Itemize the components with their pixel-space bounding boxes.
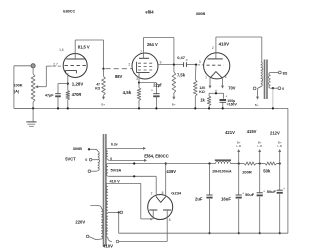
svg-text:1: 1 (205, 76, 207, 80)
net label B+ (R2) (101, 102, 105, 106)
svg-text:+: + (242, 192, 244, 196)
svg-text:220V: 220V (75, 219, 85, 224)
pin label 1,6 (59, 48, 64, 52)
OPT primary bottom wire (258, 87, 262, 89)
svg-text:470R: 470R (72, 92, 82, 97)
svg-text:1k: 1k (200, 98, 205, 103)
wire 410V bottom to GZ34 pin6 (108, 219, 168, 241)
net label B+ (OPT) (255, 103, 259, 107)
E80CC grid dashes (65, 64, 87, 66)
svg-text:421V: 421V (225, 130, 235, 135)
svg-text:4: 4 (150, 218, 152, 222)
B+ arrow below R2 (102, 95, 105, 100)
svg-text:GZ34: GZ34 (171, 190, 182, 195)
net label B+ L.R 2 (257, 141, 263, 149)
pin label 2 (EL84 grid) (128, 63, 130, 67)
junction cathode bar (215, 92, 217, 94)
svg-text:B+: B+ (172, 103, 176, 107)
node label 264 V (147, 42, 158, 47)
junction 2uF top (208, 162, 210, 164)
pin label 3 (136, 77, 138, 81)
R9 label 50k (263, 168, 271, 173)
T1 winding 5V/3A (106, 164, 108, 177)
wire EL84 pin9 to junction (158, 64, 183, 66)
capacitor C3 0,47u (183, 62, 196, 67)
resistor R3 470R (66, 91, 70, 100)
net label B+ L.R 1 (236, 141, 242, 149)
svg-text:300B: 300B (196, 11, 206, 16)
svg-text:2: 2 (128, 63, 130, 67)
junction R3-ground (67, 107, 69, 109)
junction secondary-ground (272, 107, 274, 109)
svg-text:µ: µ (186, 57, 188, 61)
capacitor C6 16uF (236, 164, 242, 234)
svg-text:410V: 410V (103, 244, 113, 249)
terminal center tap 0 (120, 211, 123, 214)
EL84 anode stem (143, 38, 145, 59)
E80CC cathode stem (67, 73, 69, 83)
terminal 410V bottom (116, 240, 119, 243)
C7 label 50uF (245, 192, 255, 197)
resistor R7 1k (207, 96, 211, 106)
C8 plus sign (283, 187, 285, 191)
tube label 300B (196, 11, 206, 16)
net label B+ (R4) (172, 103, 176, 107)
junction C7-ground (259, 232, 261, 234)
svg-text:5VCT: 5VCT (65, 156, 76, 161)
wire 6.3V bottom heater (108, 159, 147, 162)
C1 label 47uF (45, 94, 54, 98)
T1 winding 6.3V (106, 148, 108, 159)
svg-text:50k: 50k (263, 168, 271, 173)
svg-text:KΩ: KΩ (199, 90, 205, 94)
cathode return bar (209, 90, 224, 94)
svg-text:+: + (151, 89, 153, 93)
capacitor C7 50uF (257, 164, 263, 234)
svg-text:KΩ: KΩ (95, 86, 100, 90)
C7 plus sign (263, 189, 265, 193)
resistor R8 200R (244, 162, 256, 165)
wire pot wiper to grid (36, 66, 51, 87)
capacitor C2 22uF (153, 94, 159, 109)
pin label 2 (300B anode) (212, 46, 214, 50)
C6 label 16uF (221, 196, 231, 201)
net label B+ L.R 3 (277, 141, 283, 149)
svg-text:7: 7 (140, 50, 142, 54)
T1 core (104, 134, 106, 246)
resistor R6 120K grid leak (194, 65, 198, 96)
B+ arrow below R4 (172, 93, 175, 100)
pin label 4 (GZ34) (150, 218, 152, 222)
pin label 2,7 (53, 62, 58, 66)
C4 label 160V (227, 103, 238, 107)
junction 5V bottom dot (133, 175, 135, 177)
capacitor C5 2uF (206, 164, 212, 234)
wire ground rail right edge down (287, 108, 289, 233)
ground rail (14, 107, 288, 109)
wire E80CC anode loop (75, 40, 103, 69)
node label 421V (225, 130, 235, 135)
junction cathode EL84 (138, 82, 140, 84)
svg-text:L.R: L.R (257, 144, 263, 148)
svg-text:88V: 88V (115, 74, 123, 79)
svg-text:16uF: 16uF (221, 196, 231, 201)
C4 label 100u (227, 99, 235, 103)
svg-text:el84: el84 (145, 10, 154, 15)
E80CC cathode (66, 71, 77, 74)
PSU ground rail (119, 232, 288, 234)
svg-text:2: 2 (151, 191, 153, 195)
svg-text:4,5k: 4,5k (123, 90, 132, 95)
label 410 V top (110, 179, 121, 184)
junction 5V top dot (133, 162, 135, 164)
node anode E80CC junction (102, 68, 104, 70)
svg-text:81,5 V: 81,5 V (78, 44, 90, 49)
C3 label 0,47u (177, 55, 188, 62)
pin label 4 (225, 75, 227, 79)
svg-text:264 V: 264 V (147, 42, 158, 47)
capacitor C8 50uF (277, 164, 283, 234)
L1 label 20H/100mA (212, 169, 232, 173)
label 0 (secondary) (282, 87, 284, 91)
resistor R2 47K anode load (102, 76, 106, 95)
E80CC anode plate (66, 58, 84, 60)
choke L1 20H/100mA (215, 159, 231, 163)
wire grid dashes 300B (198, 64, 204, 66)
resistor R9 50k (265, 162, 277, 165)
label 0 (5VCT) (85, 158, 87, 162)
wire to C1 (58, 84, 68, 94)
svg-text:22µf: 22µf (153, 83, 162, 88)
svg-text:6: 6 (169, 218, 171, 222)
svg-text:El84, E80CC: El84, E80CC (144, 153, 168, 158)
svg-text:0: 0 (110, 157, 112, 161)
junction anode EL84 (173, 64, 175, 66)
wire R3 to rail (67, 100, 69, 109)
label 300B winding (73, 146, 82, 151)
R3 label 470R (72, 92, 82, 97)
label 5VCT (65, 156, 76, 161)
node label 415V (247, 129, 257, 134)
svg-text:50uF: 50uF (267, 189, 277, 194)
pin label 6 (GZ34) (169, 218, 171, 222)
input jack J1 (31, 64, 35, 68)
T1 winding 5VCT (300B filament) (89, 149, 100, 171)
terminal 5VCT bottom (88, 170, 91, 173)
terminal 5VCT center 0 (89, 158, 92, 161)
potentiometer 100K (A) (31, 74, 35, 102)
junction secondary 0 (272, 87, 274, 89)
wire 5V bottom to GZ34 pin2 (108, 176, 157, 197)
R8 label 200R (242, 169, 252, 174)
svg-text:4: 4 (225, 75, 227, 79)
svg-text:=160V: =160V (227, 103, 238, 107)
svg-text:E80CC: E80CC (63, 9, 75, 13)
pin label 2 (GZ34) (151, 191, 153, 195)
svg-text:0,47: 0,47 (177, 55, 186, 60)
wire bar to R7 (208, 93, 210, 96)
R4 label 7,5k (177, 72, 186, 77)
label 5V/3A (111, 167, 122, 172)
node label 81,5 V (78, 44, 90, 49)
B+ arrow OPT primary (256, 88, 259, 99)
filament lead pin4 arrow (221, 78, 224, 88)
junction filter node 415V (259, 162, 261, 164)
junction R6-ground (194, 107, 196, 109)
svg-text:410V: 410V (219, 41, 230, 46)
junction C8-ground (279, 232, 281, 234)
capacitor C1 47uF (55, 94, 61, 109)
wire R7 to rail (208, 106, 210, 109)
C5 label 2uF (195, 196, 203, 201)
GZ34 anode plate right (163, 210, 171, 219)
svg-text:B+: B+ (101, 102, 105, 106)
wire GZ34 pin8 up (165, 164, 167, 197)
svg-text:0: 0 (282, 87, 284, 91)
svg-text:1,6: 1,6 (59, 48, 64, 52)
300B anode stem (215, 37, 217, 59)
ground symbol (26, 108, 36, 126)
junction 300B grid (195, 64, 197, 66)
svg-text:B+: B+ (255, 103, 259, 107)
terminal 5VCT top (88, 148, 90, 150)
R7 label 1k (200, 98, 205, 103)
filament lead pin1 arrow (209, 78, 212, 88)
resistor R5 4,5k (137, 83, 141, 101)
svg-text:8Ω: 8Ω (283, 71, 288, 75)
label 0 (6.3V) (110, 157, 112, 161)
C2 plus sign (151, 89, 153, 93)
svg-text:+: + (225, 95, 227, 99)
OPT secondary winding (268, 73, 270, 89)
pin label 1 (205, 76, 207, 80)
junction cathode E80CC (67, 83, 69, 85)
node label 1,28V (72, 81, 84, 86)
300B filament (210, 72, 223, 79)
svg-text:3: 3 (136, 77, 138, 81)
wire jack to pot (32, 68, 34, 74)
svg-text:2uF: 2uF (195, 196, 203, 201)
triode 300B U3 envelope (204, 53, 230, 79)
label 6.3v (111, 143, 118, 147)
EL84 cathode stem (138, 72, 140, 82)
EL84 grid bracket and cathode (137, 62, 150, 73)
node label 70V (228, 85, 236, 90)
svg-text:47µF: 47µF (45, 94, 54, 98)
svg-text:300B: 300B (73, 146, 82, 151)
wire R6 to rail (194, 96, 196, 108)
pentode EL84 U2 envelope (132, 53, 158, 79)
tube label el84 (145, 10, 154, 15)
tube label E80CC (63, 9, 75, 13)
pot wiper arrow (35, 85, 38, 88)
wire center tap to PSU ground (118, 212, 120, 233)
terminal 8ohm (278, 71, 281, 74)
svg-text:6.3v: 6.3v (111, 143, 118, 147)
C8 label 50uF (267, 189, 277, 194)
svg-text:70V: 70V (228, 85, 236, 90)
pot label 100K (13, 82, 22, 87)
label 8ohm (283, 71, 288, 75)
terminal 0 (primary) (253, 87, 256, 90)
junction C2-ground (155, 107, 157, 109)
wire grid dashes E80CC (53, 65, 64, 67)
C4 plus sign (225, 95, 227, 99)
junction filter node 212V (279, 162, 281, 164)
svg-text:2: 2 (212, 46, 214, 50)
pin label 8 (GZ34) (162, 191, 164, 195)
junction C5-ground (208, 232, 210, 234)
R5 label 4,5k (123, 90, 132, 95)
C2 label 22uf (153, 83, 162, 88)
wire pot bottom to rail (32, 102, 34, 108)
wire junction to R2 (103, 69, 105, 77)
wire 410V top to GZ34 pin4 (108, 183, 154, 219)
wire bar to C4 (222, 93, 225, 99)
node label 212V (270, 131, 280, 136)
svg-text:0: 0 (85, 158, 87, 162)
300B anode plate (208, 58, 223, 60)
E80CC anode stem (74, 40, 76, 59)
svg-text:(A): (A) (14, 89, 20, 94)
OPT primary winding (261, 62, 263, 87)
B+ L.R arrow 1 (237, 149, 240, 164)
svg-text:7,5k: 7,5k (177, 72, 186, 77)
svg-text:200R: 200R (242, 169, 252, 174)
wire input to ground rail (left loop) (14, 66, 33, 109)
B+ L.R arrow 2 (258, 149, 261, 164)
svg-text:1,28V: 1,28V (72, 81, 84, 86)
svg-text:415V: 415V (247, 129, 257, 134)
wire 410V center tap (108, 211, 118, 213)
wire EL84 anode loop (144, 38, 174, 65)
svg-text:9: 9 (160, 61, 162, 65)
svg-text:+: + (263, 189, 265, 193)
300B grid dashes (207, 64, 224, 66)
wire 6.3V top heater (108, 147, 146, 150)
R2 label 47 KOhm (95, 82, 100, 90)
terminal 220V bottom (86, 235, 89, 238)
svg-text:50uF: 50uF (245, 192, 255, 197)
R6 label 120 (199, 86, 205, 90)
svg-text:20H/100mA: 20H/100mA (212, 169, 232, 173)
svg-text:212V: 212V (270, 131, 280, 136)
junction C6-ground (238, 232, 240, 234)
junction filter node 421V (238, 162, 240, 164)
capacitor C4 100uF (220, 99, 227, 108)
wire secondary to ground (272, 88, 274, 108)
label 410V bottom (103, 244, 113, 249)
svg-text:100K: 100K (13, 82, 22, 87)
junction center tap (118, 211, 120, 213)
wire coupling dashed E80CC-EL84 (106, 68, 133, 70)
OPT secondary 0 wire (270, 87, 278, 89)
B+ L.R arrow 3 (278, 149, 281, 164)
pin label 3 (300B grid) (199, 60, 201, 64)
node label 88V (115, 74, 123, 79)
EL84 anode plate (139, 57, 149, 59)
svg-text:+: + (283, 187, 285, 191)
svg-text:L.R: L.R (236, 144, 242, 148)
R6 label KOhm (199, 90, 205, 94)
pin label 9 (160, 61, 162, 65)
junction R7-ground (208, 107, 210, 109)
GZ34 filament (156, 197, 165, 203)
B+ rail 439V (108, 163, 280, 165)
T1 winding 410V (106, 183, 108, 237)
C6 plus sign (242, 192, 244, 196)
node label 439V (166, 169, 176, 174)
EL84 grid rows (138, 63, 154, 70)
terminal 0 (secondary) (278, 87, 281, 90)
pot label (A) (14, 89, 20, 94)
junction pot-ground (32, 107, 34, 109)
OPT secondary 8ohm tap wire (270, 72, 278, 74)
rectifier GZ34 U4 envelope (148, 195, 173, 220)
wire R5 to rail (138, 100, 140, 108)
wire E80CC cathode down (67, 84, 69, 91)
triode E80CC U1 envelope (63, 54, 87, 78)
pin label 7 (140, 50, 142, 54)
OPT core (265, 60, 268, 100)
wire 300B anode to OPT (216, 37, 262, 62)
GZ34 anode plate left (149, 210, 157, 219)
svg-text:L.R: L.R (277, 144, 283, 148)
T1 winding 220V (89, 206, 103, 240)
label 220V (75, 219, 85, 224)
junction C1-ground (57, 107, 59, 109)
junction C4-ground (222, 107, 224, 109)
label El84, E80CC heaters (144, 153, 168, 158)
svg-text:410 V: 410 V (110, 179, 121, 184)
svg-text:8: 8 (162, 191, 164, 195)
svg-text:5V/3A: 5V/3A (111, 167, 122, 172)
wire to C2 (139, 83, 156, 94)
label GZ34 (171, 190, 182, 195)
resistor R4 7,5k (172, 65, 176, 93)
junction pin8-rail (165, 162, 167, 164)
node label 410V (219, 41, 230, 46)
svg-text:439V: 439V (166, 169, 176, 174)
junction R5-ground (138, 107, 140, 109)
svg-text:3: 3 (199, 60, 201, 64)
